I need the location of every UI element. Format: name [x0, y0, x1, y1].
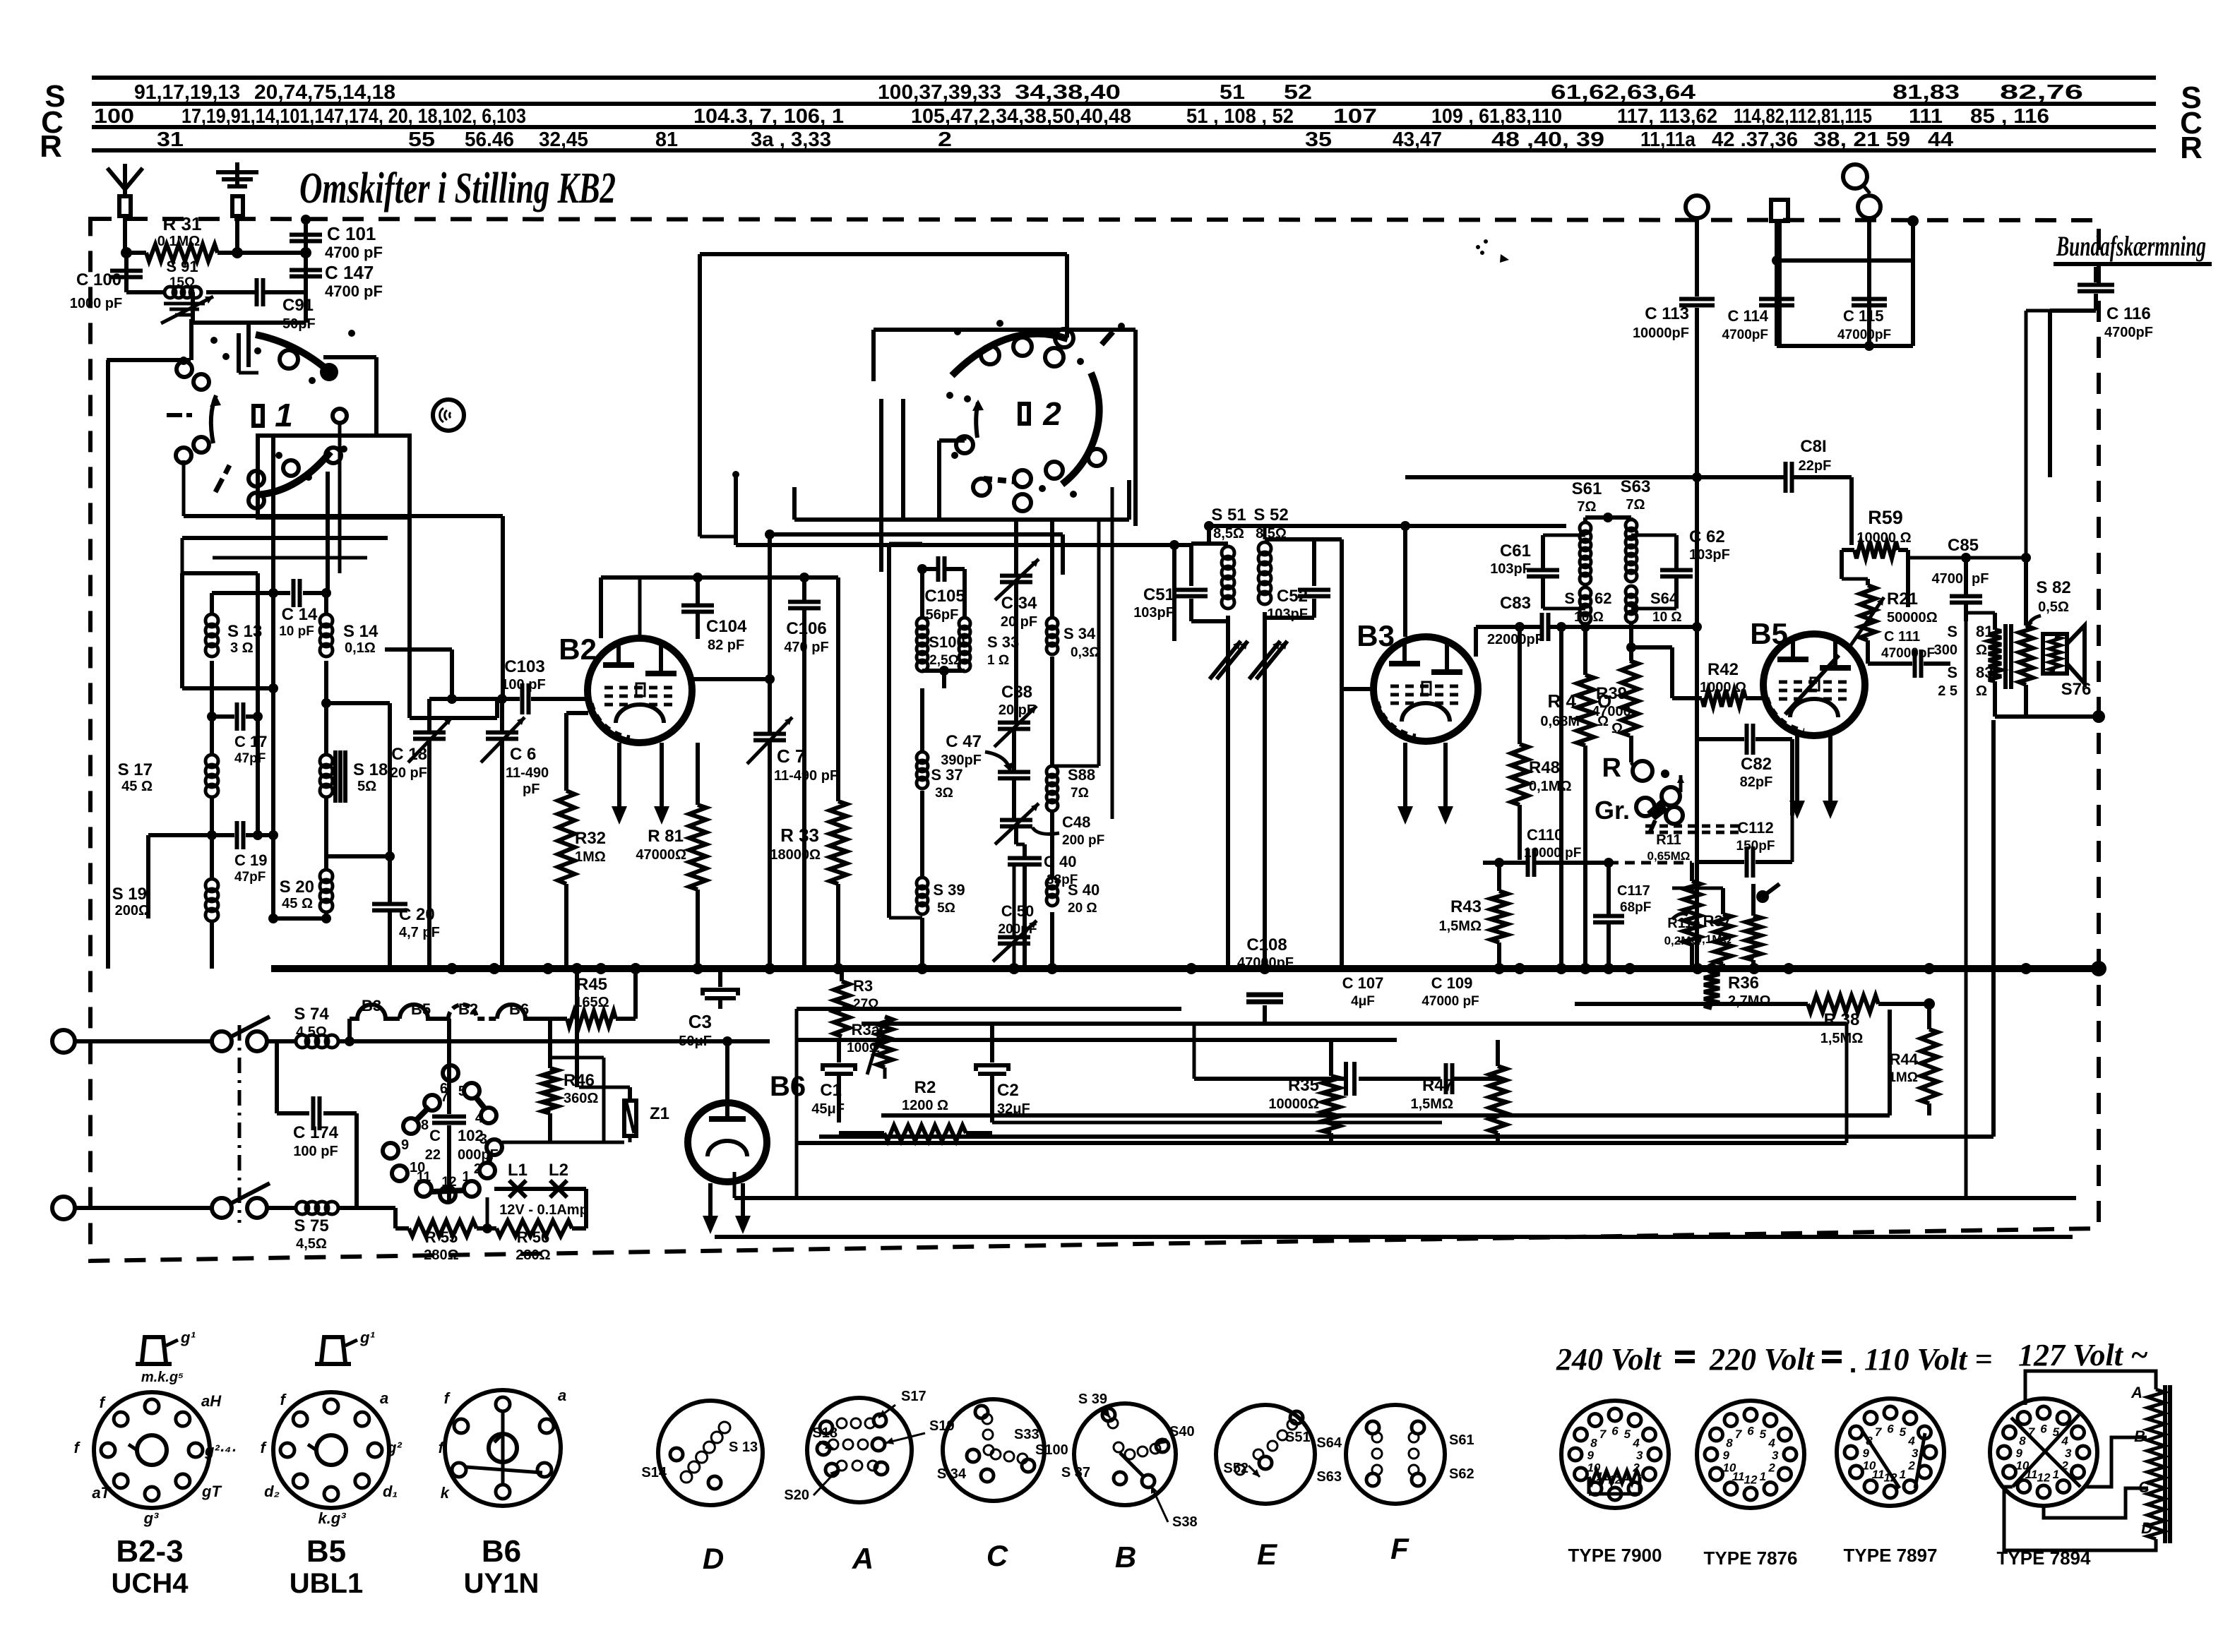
- svg-text:4,5Ω: 4,5Ω: [296, 1236, 327, 1252]
- svg-text:82 pF: 82 pF: [708, 638, 744, 653]
- capacitor C110: [1483, 861, 1527, 865]
- capacitor C113: [1679, 297, 1715, 301]
- wire: [237, 333, 241, 373]
- switch link dash-dot: [238, 1025, 242, 1223]
- svg-text:S51: S51: [1285, 1430, 1311, 1445]
- svg-text:2 5: 2 5: [1938, 683, 1957, 699]
- svg-text:C: C: [429, 1127, 441, 1144]
- wire: [1888, 1010, 1892, 1115]
- node junction: [1692, 472, 1702, 482]
- svg-text:a: a: [380, 1389, 388, 1407]
- switch 2 wafer arc: [952, 334, 1068, 376]
- svg-text:R32: R32: [575, 829, 606, 848]
- svg-text:R11a: R11a: [1667, 916, 1701, 931]
- svg-text:C105: C105: [924, 587, 965, 606]
- svg-text:R37: R37: [1703, 912, 1732, 930]
- bus junction: [1624, 963, 1635, 974]
- wire: [455, 698, 503, 701]
- wire: [1133, 330, 1138, 526]
- coil diagram E coils: [1268, 1441, 1277, 1451]
- svg-text:62: 62: [1595, 589, 1611, 607]
- inductor S91: [126, 290, 165, 294]
- wire: [1965, 604, 1968, 1198]
- node junction: [268, 588, 278, 598]
- wire: [213, 556, 367, 560]
- wire: [1845, 1024, 1849, 1143]
- wire: [920, 918, 924, 969]
- inductor S51: [1191, 541, 1228, 546]
- pickup terminal: [1843, 164, 1867, 188]
- svg-text:0,5Ω: 0,5Ω: [2038, 599, 2069, 615]
- capacitor C19: [148, 833, 234, 837]
- bus junction: [917, 963, 928, 974]
- capacitor C82: [1698, 737, 1744, 741]
- svg-text:C 17: C 17: [234, 733, 267, 750]
- svg-text:C 6: C 6: [510, 745, 536, 764]
- switch 1 contacts mid: [176, 448, 191, 463]
- svg-text:S 37: S 37: [1061, 1465, 1090, 1480]
- svg-text:22000pF: 22000pF: [1487, 632, 1544, 647]
- svg-text:83: 83: [1976, 664, 1993, 681]
- resistor R33: [836, 577, 840, 801]
- svg-text:105,47,2,34,38,50,40,48: 105,47,2,34,38,50,40,48: [911, 105, 1131, 128]
- svg-text:5Ω: 5Ω: [357, 779, 376, 794]
- svg-text:8: 8: [2019, 1435, 2026, 1448]
- svg-text:S 75: S 75: [294, 1216, 328, 1235]
- wire: [599, 577, 603, 638]
- capacitor C104: [696, 577, 700, 604]
- svg-text:S 17: S 17: [118, 760, 153, 779]
- wire: [1065, 254, 1069, 337]
- svg-text:Ω: Ω: [1976, 642, 1987, 658]
- svg-text:43,47: 43,47: [1393, 128, 1442, 151]
- wire: [75, 1039, 210, 1043]
- svg-text:B3: B3: [1357, 619, 1395, 652]
- wire: [874, 328, 1136, 332]
- svg-text:C 18: C 18: [391, 745, 427, 764]
- selector contact 5: [464, 1083, 479, 1099]
- selector contact 2: [479, 1163, 495, 1178]
- bus junction: [1556, 963, 1567, 974]
- selector contact 8: [403, 1118, 419, 1134]
- svg-text:C 34: C 34: [1001, 594, 1037, 613]
- svg-text:85 , 116: 85 , 116: [1970, 105, 2049, 128]
- coil diagram F circle: [1346, 1405, 1445, 1504]
- resistor S81 S83: [1993, 613, 1997, 630]
- wire: [1226, 616, 1230, 969]
- svg-text:m.k.g⁵: m.k.g⁵: [141, 1370, 184, 1385]
- resistor S82: [2024, 558, 2028, 626]
- svg-text:0,65MΩ: 0,65MΩ: [1647, 849, 1691, 863]
- svg-text:TYPE 7900: TYPE 7900: [1568, 1545, 1662, 1566]
- bus junction: [542, 963, 554, 974]
- tube B6: [688, 1103, 767, 1182]
- resistor R2: [884, 1125, 966, 1141]
- svg-text:pF: pF: [1972, 571, 1989, 587]
- switch 2 index dots: [954, 328, 961, 335]
- svg-text:0,1Ω: 0,1Ω: [345, 640, 376, 656]
- wire: [1775, 221, 1779, 346]
- svg-text:100,37,39,33: 100,37,39,33: [878, 81, 1001, 104]
- svg-text:C48: C48: [1062, 813, 1090, 831]
- svg-text:45μF: 45μF: [811, 1101, 845, 1117]
- svg-text:C 62: C 62: [1689, 527, 1725, 546]
- resistor R81: [696, 743, 700, 805]
- switch 1 wafer arc: [256, 335, 329, 371]
- wire: [633, 969, 638, 1019]
- switch 1 rotation arrow: [211, 395, 216, 443]
- svg-text:C 7: C 7: [777, 746, 805, 767]
- svg-text:C: C: [987, 1539, 1008, 1572]
- svg-text:11,11a: 11,11a: [1640, 128, 1696, 151]
- wire: [1193, 1024, 1196, 1079]
- svg-text:S 37: S 37: [931, 766, 962, 784]
- switch 2 lower contacts: [956, 436, 973, 453]
- selector blade 7-8: [415, 1107, 429, 1121]
- terminal square: [1771, 200, 1788, 221]
- svg-text:50μF: 50μF: [679, 1034, 712, 1049]
- table line 1: [92, 76, 2156, 80]
- wire: [1585, 515, 1631, 520]
- svg-text:1000 Ω: 1000 Ω: [1700, 680, 1746, 695]
- svg-text:22: 22: [425, 1147, 441, 1163]
- svg-text:35: 35: [1305, 128, 1332, 151]
- svg-text:R3a: R3a: [852, 1021, 881, 1039]
- inductor S37: [920, 688, 924, 752]
- svg-text:C 19: C 19: [234, 851, 267, 869]
- svg-text:47000: 47000: [1592, 704, 1631, 719]
- svg-text:1: 1: [2053, 1468, 2059, 1481]
- transformer core: [2003, 624, 2008, 689]
- wire: [2050, 309, 2096, 313]
- heater hum wire: [347, 1019, 352, 1041]
- selector contact 9: [383, 1143, 398, 1159]
- resistor R44: [1927, 1004, 1931, 1029]
- svg-text:C106: C106: [786, 619, 826, 638]
- svg-text:117, 113,62: 117, 113,62: [1617, 105, 1717, 128]
- capacitor C62: [1631, 534, 1676, 537]
- tube socket B2-3 top cap: [142, 1337, 166, 1363]
- svg-text:R44: R44: [1890, 1051, 1919, 1068]
- capacitor C20: [388, 856, 392, 903]
- table line 3: [92, 125, 2156, 129]
- svg-text:Gr.: Gr.: [1595, 796, 1630, 825]
- svg-text:56.46: 56.46: [465, 128, 514, 151]
- svg-text:10: 10: [1862, 1459, 1876, 1472]
- svg-text:4700 pF: 4700 pF: [325, 244, 383, 261]
- svg-text:4700 pF: 4700 pF: [325, 282, 383, 300]
- svg-text:8: 8: [421, 1118, 429, 1133]
- svg-text:2: 2: [474, 1161, 482, 1177]
- svg-text:82pF: 82pF: [1740, 774, 1773, 790]
- svg-text:5: 5: [1760, 1427, 1767, 1441]
- switch 2 lower dots: [951, 452, 958, 459]
- svg-text:100: 100: [94, 105, 134, 128]
- bus junction: [2020, 963, 2032, 974]
- wire S64 down: [1629, 623, 1633, 661]
- wire: [1559, 627, 1563, 969]
- wire: [692, 677, 770, 681]
- svg-text:51 , 108 , 52: 51 , 108 , 52: [1186, 105, 1294, 128]
- svg-text:100 pF: 100 pF: [501, 677, 545, 693]
- svg-text:56pF: 56pF: [926, 607, 959, 623]
- resistor R39: [1621, 661, 1638, 736]
- wire: [1659, 1003, 1712, 1005]
- bus junction: [1259, 963, 1270, 974]
- wire: [922, 669, 965, 673]
- speaker grommet icon: [433, 400, 464, 431]
- resistor R47: [1496, 1040, 1500, 1066]
- switch 1 lower arc: [256, 452, 330, 495]
- wire: [407, 517, 412, 718]
- svg-text:S: S: [1564, 589, 1575, 607]
- variable capacitor C34: [1014, 517, 1018, 575]
- resistor R59: [1842, 548, 1854, 552]
- tube socket B6 pins: [496, 1397, 510, 1411]
- svg-text:S76: S76: [2061, 680, 2092, 699]
- inductor S75: [267, 1206, 296, 1210]
- bus junction: [1706, 963, 1717, 974]
- capacitor C114: [1759, 297, 1794, 301]
- svg-text:F: F: [1390, 1532, 1409, 1565]
- capacitor C61: [1543, 534, 1585, 537]
- selector contact 6: [443, 1065, 458, 1081]
- svg-text:Z1: Z1: [650, 1104, 669, 1123]
- svg-text:3: 3: [1772, 1449, 1779, 1462]
- svg-text:7Ω: 7Ω: [1577, 499, 1596, 515]
- wire: [939, 438, 965, 443]
- svg-text:10 Ω: 10 Ω: [1652, 610, 1682, 625]
- tube socket B5: [273, 1392, 389, 1508]
- resistor R3: [840, 969, 844, 981]
- antenna terminal: [123, 164, 127, 196]
- capacitor C103: [429, 697, 520, 701]
- svg-text:R35: R35: [1288, 1076, 1319, 1095]
- wire: [271, 436, 275, 593]
- tube B2: [588, 638, 692, 743]
- svg-text:2: 2: [1907, 1459, 1915, 1472]
- bus junction: [1748, 963, 1760, 974]
- svg-text:TYPE 7876: TYPE 7876: [1704, 1548, 1798, 1569]
- svg-text:20 pF: 20 pF: [1001, 614, 1037, 630]
- capacitor C14: [212, 591, 290, 595]
- svg-text:Ω: Ω: [1611, 721, 1623, 736]
- svg-text:3 Ω: 3 Ω: [230, 640, 254, 656]
- svg-text:R21: R21: [1887, 589, 1918, 609]
- svg-text:C103: C103: [504, 657, 544, 676]
- svg-text:R45: R45: [576, 975, 607, 994]
- svg-text:S64: S64: [1650, 589, 1679, 607]
- svg-text:S 34: S 34: [937, 1466, 967, 1482]
- svg-text:UY1N: UY1N: [464, 1568, 540, 1599]
- wire: [210, 661, 214, 717]
- svg-text:8: 8: [1726, 1437, 1733, 1450]
- svg-text:C3: C3: [689, 1011, 712, 1032]
- svg-text:aT: aT: [92, 1484, 111, 1502]
- wire: [1991, 720, 1996, 1137]
- selector contact 3: [487, 1139, 502, 1155]
- svg-text:B6: B6: [509, 1000, 529, 1018]
- wire R36 bottom line: [1575, 1002, 1808, 1006]
- wire: [797, 1038, 1397, 1042]
- bus junction: [1783, 963, 1794, 974]
- coil diagram B coils: [1108, 1418, 1118, 1428]
- svg-text:Bundafskærmning: Bundafskærmning: [2056, 230, 2206, 262]
- capacitor C81: [1784, 462, 1788, 493]
- svg-text:81,83: 81,83: [1893, 81, 1960, 104]
- coil diagram C coils: [982, 1414, 992, 1424]
- bus junction: [692, 963, 703, 974]
- capacitor C91: [206, 290, 256, 294]
- svg-text:27Ω: 27Ω: [853, 997, 878, 1012]
- inductor S61: [1583, 517, 1587, 522]
- coil diagram A circle: [807, 1398, 912, 1502]
- svg-text:g²·⁴·: g²·⁴·: [204, 1442, 237, 1459]
- svg-text:1: 1: [1900, 1468, 1906, 1481]
- svg-text:5: 5: [1900, 1425, 1907, 1439]
- switch 2 right arc: [1062, 373, 1099, 484]
- svg-text:C83: C83: [1500, 594, 1531, 613]
- svg-text:4: 4: [475, 1111, 484, 1126]
- svg-text:114,82,112,81,115: 114,82,112,81,115: [1734, 105, 1872, 128]
- black knob dot: [1756, 890, 1769, 903]
- svg-text:100Ω: 100Ω: [847, 1041, 880, 1055]
- wire: [1209, 524, 1566, 528]
- svg-text:280Ω: 280Ω: [515, 1247, 550, 1263]
- svg-text:1,5MΩ: 1,5MΩ: [1820, 1031, 1864, 1046]
- svg-text:100 pF: 100 pF: [293, 1144, 338, 1159]
- capacitor C115: [1852, 297, 1887, 301]
- capacitor C51: [1189, 544, 1193, 586]
- inductor S17: [210, 717, 214, 755]
- coil diagram E circle: [1216, 1405, 1315, 1504]
- wire: [502, 1141, 624, 1144]
- svg-text:6: 6: [2040, 1422, 2047, 1435]
- svg-text:S64: S64: [1316, 1435, 1342, 1451]
- svg-text:D: D: [703, 1542, 724, 1575]
- svg-text:C 174: C 174: [293, 1123, 339, 1142]
- bus junction: [446, 963, 458, 974]
- inductor S62: [1580, 587, 1591, 599]
- svg-text:10: 10: [1722, 1461, 1736, 1474]
- svg-text:R: R: [1602, 753, 1621, 783]
- svg-text:S88: S88: [1068, 766, 1095, 784]
- svg-text:2,7MΩ: 2,7MΩ: [1728, 993, 1771, 1009]
- svg-text:C 114: C 114: [1728, 307, 1769, 325]
- S91 core and trimmer arrow: [164, 302, 205, 306]
- svg-text:3: 3: [2065, 1447, 2072, 1460]
- svg-text:C 47: C 47: [946, 732, 982, 751]
- switch 1 lower dots: [305, 474, 312, 481]
- svg-text:4700pF: 4700pF: [2104, 325, 2153, 340]
- wire: [1631, 645, 1672, 650]
- svg-text:109 , 61,83,110: 109 , 61,83,110: [1431, 105, 1562, 128]
- svg-text:R3: R3: [853, 977, 873, 995]
- capacitor C112: [1698, 860, 1744, 864]
- bus junction: [1924, 963, 1935, 974]
- svg-text:3: 3: [1912, 1447, 1919, 1460]
- svg-text:82,76: 82,76: [2000, 81, 2083, 104]
- svg-text:47000pF: 47000pF: [1237, 955, 1294, 971]
- mains terminal upper: [52, 1030, 75, 1053]
- capacitor C102: [447, 1019, 451, 1114]
- bus junction: [833, 963, 844, 974]
- svg-text:C52: C52: [1277, 587, 1308, 606]
- resistor R56: [477, 1226, 496, 1231]
- svg-text:4700pF: 4700pF: [1722, 328, 1768, 342]
- wire: [184, 514, 388, 518]
- dashed link lines: [1645, 825, 1739, 828]
- svg-text:R11: R11: [1656, 832, 1681, 848]
- wire: [1908, 556, 2026, 560]
- voltage socket TYPE 7900: [1561, 1401, 1669, 1508]
- svg-text:aH: aH: [201, 1392, 222, 1410]
- wire: [126, 251, 146, 255]
- svg-text:S 91: S 91: [166, 258, 198, 275]
- svg-text:0,1MΩ: 0,1MΩ: [1529, 779, 1572, 794]
- svg-text:200 pF: 200 pF: [1062, 833, 1104, 848]
- svg-text:k: k: [441, 1484, 451, 1502]
- resistor R36: [1704, 972, 1720, 1008]
- svg-text:0,1MΩ: 0,1MΩ: [1695, 933, 1732, 946]
- inductor S74: [267, 1039, 296, 1043]
- bus end dot: [2091, 961, 2106, 976]
- svg-text:C 14: C 14: [282, 605, 318, 624]
- tube B6 cathode: [708, 1141, 747, 1156]
- wire: [1840, 550, 1844, 579]
- potentiometer R21: [1866, 579, 1870, 585]
- svg-text:4: 4: [2061, 1435, 2068, 1448]
- inductor S40: [1050, 812, 1054, 878]
- svg-text:S 19: S 19: [112, 885, 147, 904]
- capacitor C101: [301, 215, 311, 225]
- svg-text:TYPE 7897: TYPE 7897: [1844, 1545, 1938, 1566]
- trimmer capacitor C18: [427, 699, 431, 731]
- chassis dashed border: [90, 219, 2099, 1261]
- resistor R32: [564, 713, 568, 791]
- switch 1 contacts upper: [177, 361, 192, 377]
- inductor S100: [920, 569, 924, 618]
- tube B3: [1373, 637, 1478, 741]
- svg-text:20,74,75,14,18: 20,74,75,14,18: [254, 81, 395, 104]
- svg-text:C 101: C 101: [327, 223, 376, 244]
- svg-text:111: 111: [1909, 105, 1943, 128]
- svg-text:165Ω: 165Ω: [574, 995, 609, 1010]
- wire: [2075, 1024, 2077, 1198]
- svg-text:45 Ω: 45 Ω: [282, 896, 313, 911]
- voltage socket TYPE 7876: [1697, 1401, 1804, 1508]
- node junction: [917, 564, 927, 574]
- wire: [1772, 256, 1782, 265]
- svg-text:S 52: S 52: [1253, 505, 1288, 525]
- capacitor C83: [1540, 613, 1544, 641]
- svg-text:B3: B3: [362, 997, 381, 1014]
- svg-text:S100: S100: [1035, 1442, 1068, 1458]
- switch 1 diagonal dash: [215, 479, 222, 492]
- svg-text:107: 107: [1333, 105, 1377, 128]
- svg-text:C112: C112: [1737, 819, 1773, 837]
- svg-text:52: 52: [1284, 81, 1312, 104]
- svg-text:1: 1: [275, 397, 293, 433]
- inductor S20: [324, 798, 328, 870]
- wire: [146, 835, 150, 918]
- svg-text:B2: B2: [559, 633, 597, 666]
- svg-text:k.g³: k.g³: [318, 1509, 346, 1527]
- svg-text:g³: g³: [143, 1509, 159, 1527]
- svg-text:B6: B6: [482, 1534, 521, 1569]
- svg-text:S20: S20: [784, 1488, 809, 1503]
- tube B6 anode: [725, 1087, 729, 1119]
